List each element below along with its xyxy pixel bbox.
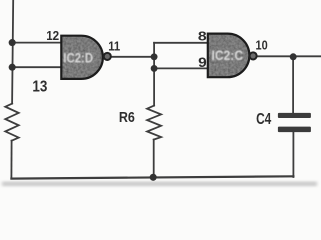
svg-text:IC2:C: IC2:C	[212, 48, 244, 63]
svg-text:R6: R6	[119, 110, 135, 126]
svg-text:11: 11	[108, 38, 120, 53]
svg-text:9: 9	[198, 54, 207, 70]
svg-text:C4: C4	[256, 111, 271, 128]
svg-text:13: 13	[32, 79, 47, 96]
svg-text:IC2:D: IC2:D	[63, 50, 93, 65]
svg-text:10: 10	[256, 38, 268, 53]
svg-text:12: 12	[46, 28, 59, 43]
svg-text:8: 8	[198, 29, 207, 44]
